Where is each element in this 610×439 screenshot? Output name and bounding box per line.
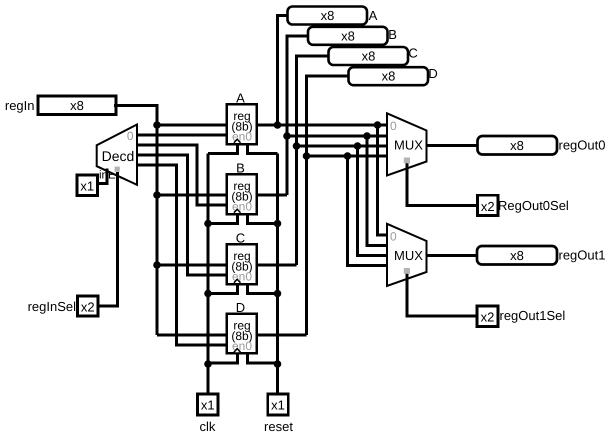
register C (reg 8b) [227, 244, 257, 284]
svg-text:0: 0 [127, 129, 134, 143]
port inEn (x1) [77, 175, 98, 196]
junction A-MUX1 [374, 121, 382, 129]
wire reg C clock pin [208, 284, 237, 294]
svg-text:x2: x2 [81, 300, 95, 315]
junction regD riser [303, 152, 311, 160]
port reset (x1) [268, 394, 289, 415]
wire regIn to reg C data [157, 264, 227, 267]
wire MUX0 select [407, 161, 479, 206]
svg-text:D: D [428, 66, 437, 81]
wire reg A clock pin [208, 144, 237, 154]
wire reg B clock pin [208, 214, 237, 224]
wire reset bus [276, 154, 279, 396]
wire clk bus [207, 154, 210, 396]
wire reg D output riser [257, 334, 307, 337]
svg-text:MUX: MUX [394, 138, 423, 153]
wire reg B reset pin [247, 214, 277, 224]
decoder select marker [115, 167, 120, 172]
junction D-MUX1 [344, 152, 352, 160]
svg-text:0: 0 [390, 119, 397, 133]
wire A to MUX1 [378, 125, 389, 235]
wire decd out0 to reg A en [136, 134, 227, 137]
wire MUX1 select [407, 272, 478, 317]
junction clk-C [204, 290, 212, 298]
junction regIn-C [153, 261, 161, 269]
wire to output box C [297, 56, 331, 265]
junction regC riser [293, 142, 301, 150]
svg-text:A: A [369, 8, 378, 23]
wire MUX0 output [427, 144, 480, 147]
decoder U1 (Decd) [97, 125, 137, 185]
svg-text:regOut1Sel: regOut1Sel [500, 308, 566, 323]
svg-text:regOut0: regOut0 [559, 138, 606, 153]
svg-text:x8: x8 [321, 8, 335, 23]
wire MUX1 output [427, 254, 480, 257]
port regOut1Sel (x2) [477, 306, 498, 327]
wire decd out1 to reg B en [136, 145, 227, 205]
svg-text:x1: x1 [271, 398, 285, 413]
port regIn (x8) [38, 96, 116, 115]
svg-text:x1: x1 [201, 398, 215, 413]
register D (reg 8b) [227, 314, 257, 354]
output box A (x8) [288, 7, 368, 25]
mux U3 (MUX1) [387, 224, 427, 286]
wire decd out3 to reg D en [136, 165, 227, 345]
wire C to MUX1 [358, 146, 389, 256]
wire reg C output to MUX0 [297, 145, 389, 148]
output box B (x8) [308, 27, 388, 45]
register A (reg 8b) [227, 104, 257, 144]
junction clk-B [204, 220, 212, 228]
wire reg D clock pin [208, 353, 237, 363]
junction clk-D [204, 360, 212, 368]
port regOut0 (x8) [478, 136, 558, 155]
svg-text:x8: x8 [382, 69, 396, 84]
wire B to MUX1 [367, 136, 388, 246]
junction regA-boxA [274, 121, 282, 129]
wire reg B output to MUX0 [287, 135, 388, 138]
MUX0 select marker [404, 158, 410, 164]
wire reg A output [257, 124, 389, 127]
svg-text:regOut1: regOut1 [559, 248, 606, 263]
svg-text:B: B [388, 27, 397, 42]
wire D to MUX1 [348, 156, 389, 266]
wire reg C output riser [257, 264, 297, 267]
junction reset-C [274, 290, 282, 298]
wire regIn to reg D data [157, 334, 227, 337]
wire reg D reset pin [247, 353, 277, 363]
wire regIn to reg B data [157, 194, 227, 197]
svg-text:x1: x1 [80, 179, 94, 194]
junction regIn-B [153, 191, 161, 199]
output box D (x8) [349, 67, 429, 85]
output box C (x8) [329, 47, 409, 65]
junction reset-B [274, 220, 282, 228]
wire to output box D [307, 76, 351, 335]
port RegOut0Sel (x2) [478, 195, 499, 215]
port regOut1 (x8) [477, 246, 557, 265]
register B (reg 8b) [227, 174, 257, 214]
svg-text:reset: reset [264, 419, 293, 434]
svg-text:x8: x8 [510, 248, 524, 263]
wire to output box A [278, 16, 290, 126]
junction regB riser [283, 132, 291, 140]
svg-text:x8: x8 [341, 28, 355, 43]
svg-text:x8: x8 [362, 49, 376, 64]
port regInSel (x2) [78, 296, 99, 316]
svg-text:0: 0 [390, 229, 397, 243]
MUX1 select marker [404, 268, 410, 274]
svg-text:RegOut0Sel: RegOut0Sel [498, 198, 569, 213]
svg-text:MUX: MUX [394, 248, 423, 263]
svg-text:Decd: Decd [102, 148, 135, 164]
svg-text:x2: x2 [481, 310, 495, 325]
svg-text:x8: x8 [510, 138, 524, 153]
svg-text:regInSel: regInSel [28, 299, 77, 314]
svg-text:C: C [408, 46, 417, 61]
wire reg C reset pin [247, 284, 277, 294]
mux U2 (MUX0) [387, 113, 427, 175]
junction reset-D [274, 360, 282, 368]
junction C-MUX1 [354, 142, 362, 150]
svg-text:regIn: regIn [5, 98, 35, 113]
wire regIn to reg A data [157, 124, 227, 127]
wire regIn bus [114, 106, 157, 336]
wire reg B output riser [257, 194, 288, 197]
wire inEn [97, 169, 107, 184]
wire decd out2 to reg C en [136, 155, 227, 275]
junction B-MUX1 [363, 132, 371, 140]
svg-text:x2: x2 [481, 199, 495, 214]
wire reg D output to MUX0 [307, 155, 389, 158]
svg-text:clk: clk [200, 419, 216, 434]
wire regInSel to decoder select [98, 172, 118, 306]
port clk (x1) [198, 394, 219, 415]
wire reg A reset pin [247, 144, 277, 154]
wire to output box B [287, 36, 310, 195]
svg-text:x8: x8 [70, 98, 84, 113]
junction regIn-A [153, 121, 161, 129]
